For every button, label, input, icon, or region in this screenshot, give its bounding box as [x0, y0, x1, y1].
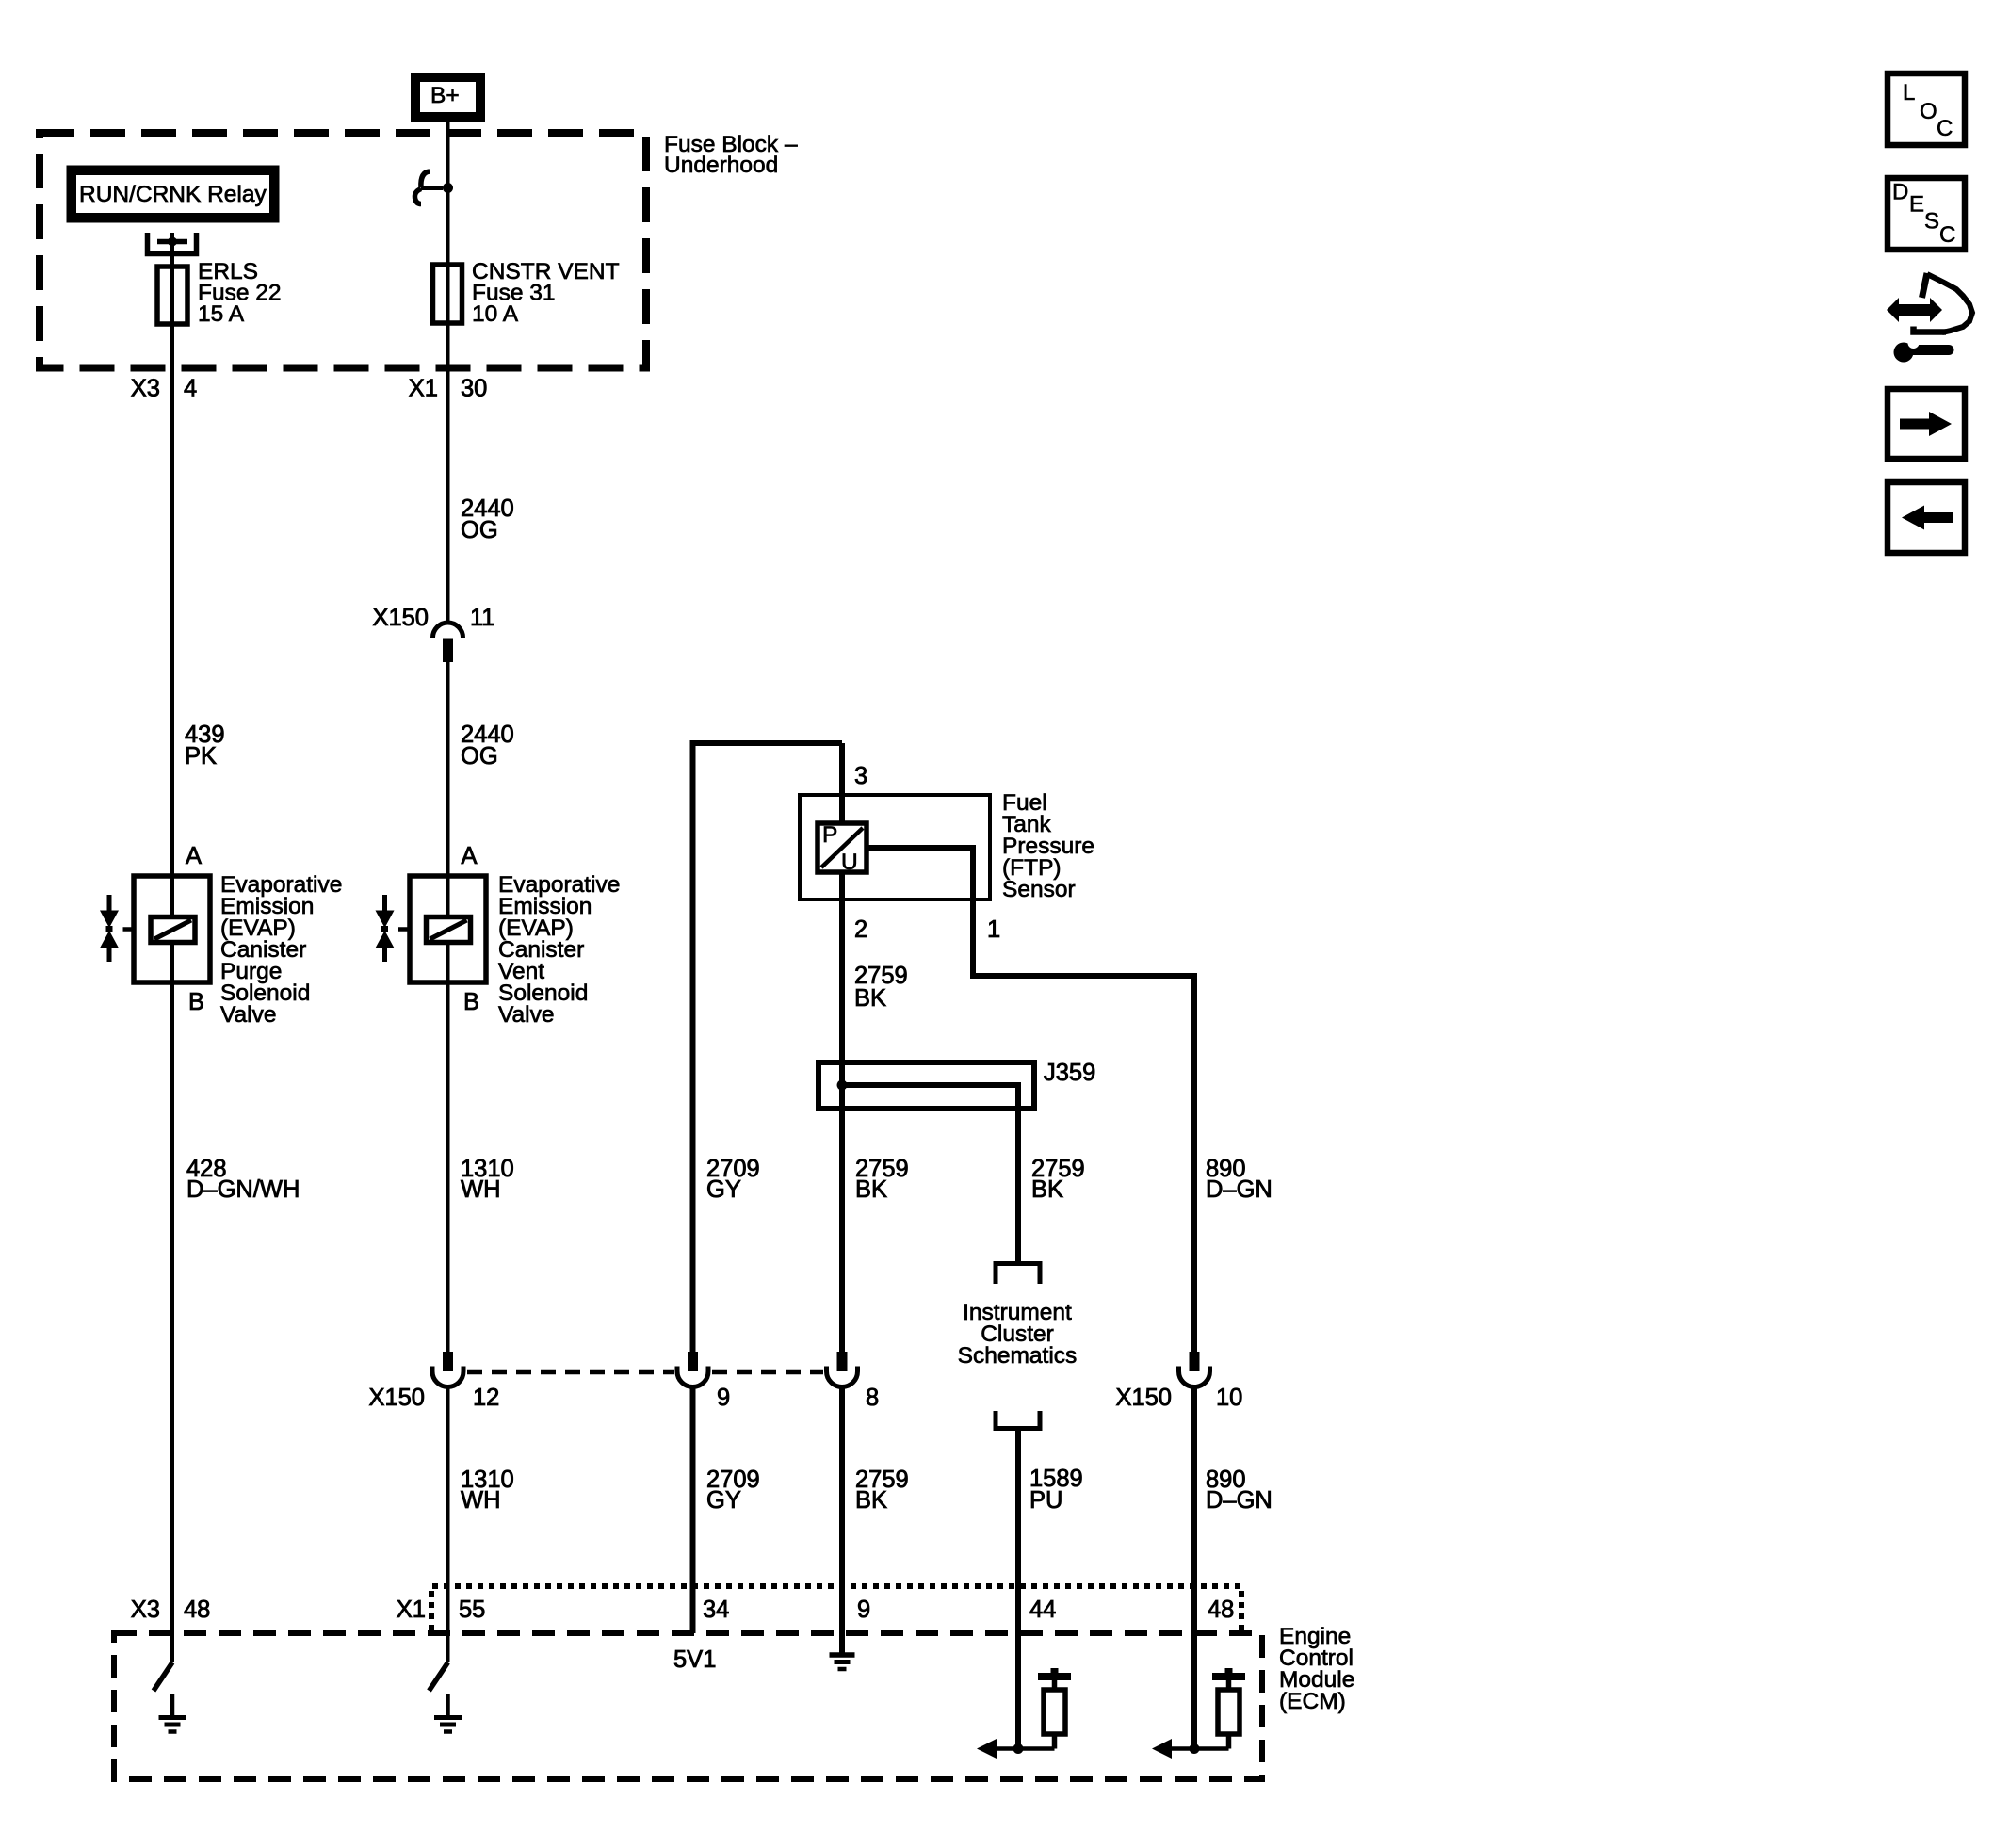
svg-text:J359: J359: [1044, 1060, 1095, 1086]
dashed harness link 9-8: [712, 1370, 823, 1375]
svg-text:B+: B+: [430, 83, 460, 108]
wire label 2440 OG (upper): [461, 495, 514, 543]
svg-text:Schematics: Schematics: [958, 1343, 1078, 1369]
wire label 2440 OG (lower): [461, 721, 514, 770]
svg-text:A: A: [462, 843, 478, 869]
svg-text:X150: X150: [372, 605, 429, 631]
svg-text:3: 3: [854, 763, 867, 789]
icon harness repair (double arrow, outline, wrench): [1887, 273, 1972, 363]
wire label 2709 GY (lower): [706, 1467, 760, 1514]
svg-text:U: U: [841, 850, 858, 875]
svg-text:O: O: [1920, 99, 1937, 124]
svg-text:48: 48: [1208, 1597, 1234, 1623]
in-line connector X150 pin 11: [372, 605, 494, 662]
connector X1 pin 30 labels: [409, 376, 488, 402]
label Fuse Block - Underhood: [664, 132, 798, 178]
ECM internal circuit pin 44: signal arrow: [977, 1739, 1055, 1759]
wire 1589 PU (wire E lower): [1015, 1429, 1021, 1749]
ECM driver switch X1-55: [430, 1662, 448, 1691]
svg-text:X150: X150: [1115, 1385, 1172, 1411]
wire 2709 GY lower (wire C to ECM): [690, 1387, 696, 1634]
svg-text:X3: X3: [131, 376, 160, 402]
svg-text:B: B: [463, 989, 479, 1015]
svg-text:GY: GY: [706, 1176, 741, 1203]
ground symbol under X1-55: [434, 1694, 462, 1732]
junction node on splice: [837, 1080, 848, 1091]
wire label 2759 BK (mid right): [1031, 1156, 1085, 1203]
icon LOC box: [1888, 73, 1965, 145]
label ERLS Fuse 22 15 A: [198, 259, 282, 327]
wire 2440 OG to vent valve (wire B mid): [446, 662, 450, 916]
ECM internal pull-up resistor pin 48: [1212, 1668, 1245, 1749]
battery stud hook symbol: [414, 171, 453, 204]
svg-text:L: L: [1903, 80, 1915, 105]
svg-text:BK: BK: [1031, 1176, 1063, 1203]
svg-text:11: 11: [470, 605, 494, 631]
svg-text:12: 12: [473, 1385, 499, 1411]
wire FTP pin 3: [839, 743, 845, 823]
off-page connector from instrument cluster (up bracket): [996, 1411, 1040, 1429]
svg-text:5V1: 5V1: [673, 1646, 716, 1673]
svg-text:Underhood: Underhood: [664, 153, 778, 178]
svg-text:8: 8: [866, 1385, 879, 1411]
svg-text:D–GN/WH: D–GN/WH: [186, 1176, 300, 1203]
wire label 2759 BK (lower): [855, 1467, 909, 1514]
svg-text:X150: X150: [368, 1385, 425, 1411]
label Fuel Tank Pressure (FTP) Sensor: [1002, 790, 1094, 902]
FTP sensor box: [800, 795, 990, 900]
svg-text:D–GN: D–GN: [1206, 1487, 1272, 1514]
off-page connector to instrument cluster (down bracket): [996, 1264, 1040, 1285]
icon forward arrow box: [1888, 389, 1965, 459]
wire label 890 D-GN (upper): [1206, 1156, 1272, 1203]
ECM internal circuit pin 48: signal arrow: [1152, 1739, 1229, 1759]
svg-text:D: D: [1892, 180, 1908, 205]
ECM dashed box: [114, 1633, 1262, 1779]
wire label 1310 WH (upper): [461, 1156, 514, 1203]
svg-text:C: C: [1939, 222, 1955, 248]
icon back arrow box: [1888, 482, 1965, 553]
connector X150 pin 12: [368, 1352, 499, 1411]
svg-text:34: 34: [703, 1597, 729, 1623]
svg-text:10 A: 10 A: [472, 301, 519, 327]
relay socket terminal symbol: [148, 233, 197, 254]
fuse block underhood dashed box: [40, 133, 646, 368]
svg-text:A: A: [186, 843, 202, 869]
wire vent valve down (wire B lower): [446, 942, 450, 1352]
wire splice bus to instrument cluster (wire E upper): [842, 1085, 1018, 1261]
svg-text:30: 30: [461, 376, 487, 402]
svg-text:15 A: 15 A: [198, 301, 245, 327]
svg-text:GY: GY: [706, 1487, 741, 1514]
label vent valve text: [498, 872, 620, 1028]
EVAP canister purge solenoid valve: [100, 843, 210, 1015]
ECM internal pull-up resistor pin 44: [1038, 1668, 1071, 1749]
svg-text:P: P: [822, 822, 837, 848]
svg-text:OG: OG: [461, 517, 498, 543]
connector X150 pin 10: [1115, 1352, 1242, 1411]
svg-text:BK: BK: [855, 1487, 887, 1514]
label Instrument Cluster Schematics: [958, 1300, 1078, 1369]
svg-text:(ECM): (ECM): [1279, 1689, 1346, 1714]
wire label 2709 GY (upper): [706, 1156, 760, 1203]
wire 2709 GY top run (wire C): [693, 743, 843, 1352]
svg-text:X1: X1: [397, 1597, 426, 1623]
svg-text:X3: X3: [131, 1597, 160, 1623]
svg-text:S: S: [1924, 209, 1939, 235]
svg-text:Valve: Valve: [498, 1002, 554, 1028]
ground symbol under X3-48: [159, 1694, 186, 1732]
connector X150 pin 8: [827, 1352, 880, 1411]
svg-text:44: 44: [1029, 1597, 1056, 1623]
icon DESC box: [1888, 178, 1965, 250]
wire FTP pin 1 loop (wire F): [867, 848, 1194, 1352]
svg-text:PK: PK: [185, 743, 217, 770]
svg-text:Valve: Valve: [220, 1002, 276, 1028]
svg-text:9: 9: [717, 1385, 730, 1411]
wire B+ feed (wire B upper): [446, 122, 450, 622]
wire label 428 D-GN/WH: [186, 1156, 300, 1203]
wire 890 D-GN lower (wire F to ECM): [1191, 1387, 1197, 1749]
svg-text:C: C: [1937, 116, 1953, 141]
wire relay output to ERLS fuse (wire A upper): [170, 233, 174, 1662]
ECM connector X1 dotted outline: [431, 1586, 1241, 1630]
wire label 2759 BK (upper): [854, 963, 908, 1012]
ECM pin label X3 48: [131, 1597, 211, 1623]
svg-text:B: B: [188, 989, 204, 1015]
label purge valve text: [220, 872, 342, 1028]
svg-text:2: 2: [854, 916, 867, 943]
svg-text:1: 1: [987, 916, 1000, 943]
svg-text:55: 55: [459, 1597, 485, 1623]
svg-text:PU: PU: [1029, 1487, 1062, 1514]
label CNSTR VENT Fuse 31 10 A: [472, 259, 620, 327]
wire 2759 BK lower (wire D to ground): [839, 1387, 845, 1655]
svg-text:48: 48: [184, 1597, 210, 1623]
power symbol B+: [415, 77, 480, 117]
fuse ERLS Fuse 22: [157, 267, 187, 324]
wire FTP pin 2 2759 BK (wire D): [839, 872, 845, 1352]
svg-text:RUN/CRNK Relay: RUN/CRNK Relay: [79, 182, 267, 207]
svg-text:X1: X1: [409, 376, 438, 402]
wire label 1310 WH (lower): [461, 1467, 514, 1514]
svg-text:Sensor: Sensor: [1002, 877, 1076, 902]
ECM pin label X1 55: [397, 1597, 486, 1623]
wire label 439 PK: [185, 721, 225, 770]
relay RUN/CRNK: [67, 166, 279, 222]
svg-text:E: E: [1909, 192, 1924, 218]
dashed harness link 12-9: [467, 1370, 674, 1375]
svg-text:4: 4: [184, 376, 197, 402]
svg-text:D–GN: D–GN: [1206, 1176, 1272, 1203]
wire 1310 WH lower (wire B to ECM): [446, 1387, 450, 1663]
svg-text:BK: BK: [854, 985, 886, 1012]
svg-text:WH: WH: [461, 1487, 500, 1514]
EVAP canister vent solenoid valve: [376, 843, 487, 1015]
svg-text:BK: BK: [855, 1176, 887, 1203]
connector X3 pin 4 labels: [131, 376, 197, 402]
pressure transducer P/U symbol: [818, 822, 867, 875]
ground symbol pin 9: [830, 1655, 855, 1669]
svg-text:10: 10: [1216, 1385, 1242, 1411]
connector X150 pin 9: [677, 1352, 730, 1411]
wire label 1589 PU: [1029, 1466, 1083, 1514]
label Engine Control Module (ECM): [1279, 1624, 1354, 1714]
ECM driver switch X3-48: [154, 1662, 172, 1691]
svg-text:9: 9: [857, 1597, 870, 1623]
splice pack J359: [819, 1062, 1034, 1109]
wire label 890 D-GN (lower): [1206, 1467, 1272, 1514]
fuse CNSTR VENT Fuse 31: [433, 265, 462, 323]
wire label 2759 BK (mid left): [855, 1156, 909, 1203]
svg-text:WH: WH: [461, 1176, 500, 1203]
svg-text:OG: OG: [461, 743, 498, 770]
